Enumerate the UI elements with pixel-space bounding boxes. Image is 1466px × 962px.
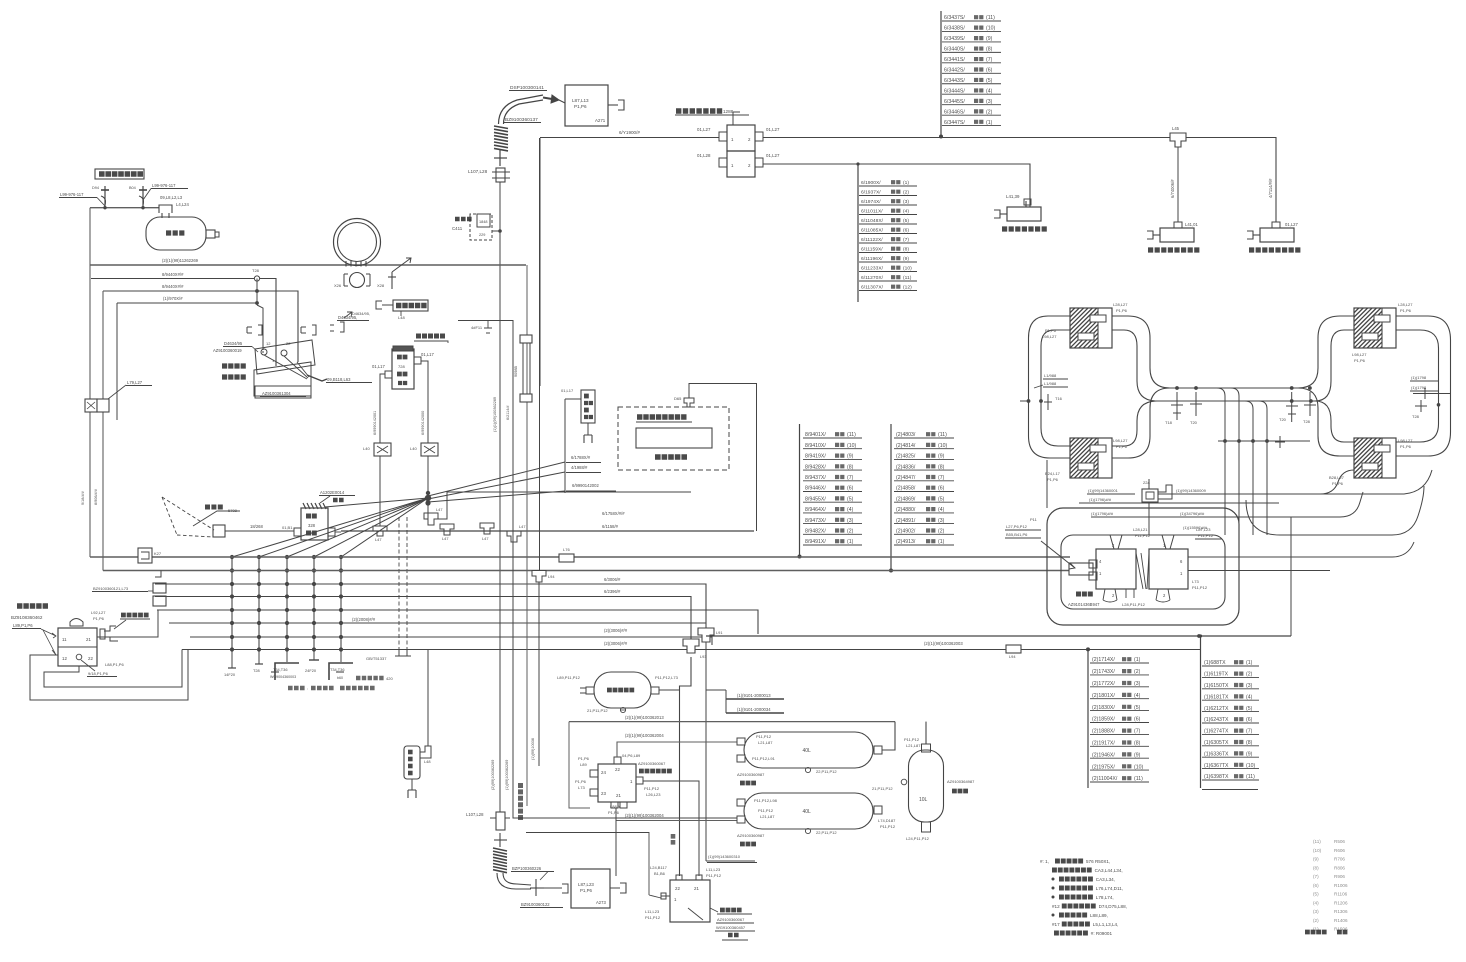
svg-text:8/9440X#/#: 8/9440X#/#	[162, 272, 184, 277]
svg-text:(2): (2)	[1313, 918, 1319, 923]
check valve 1	[104, 186, 106, 207]
relay valve 328 box	[301, 508, 328, 540]
compressor box	[392, 349, 414, 389]
svg-text:6/3446S/: 6/3446S/	[944, 109, 965, 115]
svg-text:L89,P11,P12: L89,P11,P12	[557, 675, 581, 680]
valve pin circles	[261, 349, 267, 355]
svg-text:P11,P12,L98: P11,P12,L98	[754, 798, 778, 803]
svg-text:L21,L87: L21,L87	[906, 743, 921, 748]
muffler box (dark)	[393, 300, 428, 311]
label relay-1288 (dark)	[676, 108, 722, 113]
svg-text:L88,#: L88,#	[610, 804, 621, 809]
svg-text:T20: T20	[1279, 417, 1287, 422]
svg-text:23: 23	[601, 791, 606, 796]
svg-text:(11): (11)	[938, 432, 947, 438]
svg-text:L99-976-117: L99-976-117	[60, 192, 84, 197]
hand brake valve body upper	[255, 340, 315, 374]
diagonal fan wires hub to grid	[232, 498, 428, 557]
extra row line table-T6	[1202, 789, 1258, 791]
relay valve right body	[1149, 549, 1188, 589]
bus y649.5	[182, 649, 1200, 651]
svg-text:(2): (2)	[847, 529, 854, 535]
svg-text:(5): (5)	[903, 218, 909, 224]
fan hub blob	[425, 495, 431, 501]
svg-text:(1): (1)	[1134, 657, 1141, 663]
wire y291	[103, 291, 298, 362]
svg-text:09,B118,L63: 09,B118,L63	[327, 377, 351, 382]
svg-text:(1): (1)	[847, 539, 854, 545]
svg-text:L76: L76	[563, 547, 570, 552]
junction dot table-T1 / main wire	[939, 135, 943, 139]
fitting L107/L28 bottom	[490, 817, 510, 819]
wire y832 x649	[526, 833, 649, 896]
svg-text:(2)4880/: (2)4880/	[896, 507, 916, 513]
svg-text:328: 328	[308, 523, 316, 528]
connector 1288 upper box	[727, 125, 755, 151]
svg-text:(10): (10)	[903, 266, 912, 272]
svg-text:(1)(15596)#/#: (1)(15596)#/#	[1183, 525, 1208, 530]
ticks T20 T28 loop2	[1291, 392, 1293, 422]
relay assembly inner round-rect	[1061, 535, 1225, 609]
fan wires hub to right labels	[428, 462, 565, 496]
diag leader into relay	[1041, 541, 1075, 568]
wire main top bus y137.5 left	[540, 137, 719, 139]
wire L91 top stub	[705, 642, 707, 645]
svg-text:(3): (3)	[938, 518, 945, 524]
svg-text:L73: L73	[1192, 579, 1199, 584]
svg-text:R1006: R1006	[1334, 883, 1348, 888]
svg-text:(12): (12)	[903, 285, 912, 291]
svg-text:P11,P12: P11,P12	[645, 915, 661, 920]
svg-text:L79,L27: L79,L27	[127, 380, 143, 385]
svg-text:(1)6119TX: (1)6119TX	[1204, 672, 1229, 678]
air hose coil	[334, 219, 381, 266]
bus y623	[169, 622, 706, 624]
horn connection box	[213, 525, 225, 537]
wire y517 right	[1091, 492, 1363, 517]
svg-text:R606: R606	[1334, 848, 1345, 853]
bus y557 (thick)	[90, 556, 1070, 558]
svg-text:6/11270X/: 6/11270X/	[861, 275, 884, 281]
svg-text:(2): (2)	[1134, 669, 1141, 675]
svg-text:(9): (9)	[1134, 752, 1141, 758]
svg-text:6/11085X/: 6/11085X/	[861, 228, 884, 234]
wire to A273	[544, 887, 562, 889]
tank3 left fitting	[901, 779, 907, 785]
svg-text:L4,L24: L4,L24	[176, 202, 189, 207]
wires y556/570 right of relay	[1093, 556, 1096, 558]
svg-text:(1): (1)	[986, 120, 993, 126]
svg-text:AZ9101436B947: AZ9101436B947	[1068, 602, 1100, 607]
bus y649 fitting L94b	[1006, 645, 1021, 653]
dryer feed box A273	[571, 869, 610, 908]
svg-text:b60: b60	[337, 676, 343, 680]
svg-text:(1): (1)	[938, 539, 945, 545]
svg-text:(1)(99)14360009: (1)(99)14360009	[1176, 488, 1207, 493]
svg-text:6/3438S/: 6/3438S/	[944, 26, 965, 32]
svg-text:(7): (7)	[903, 237, 909, 243]
tee L94 on bus570	[532, 571, 546, 583]
svg-text:(4): (4)	[1134, 693, 1141, 699]
svg-text:D4634/95: D4634/95	[224, 341, 243, 346]
svg-text:P11,P12: P11,P12	[1198, 533, 1214, 538]
wires relay region horiz	[1079, 502, 1279, 504]
svg-text:18/268: 18/268	[250, 524, 263, 529]
svg-text:8/9428X/: 8/9428X/	[805, 464, 826, 470]
svg-text:22: 22	[675, 886, 680, 891]
svg-text:L45: L45	[1172, 126, 1180, 131]
svg-text:5708: 5708	[228, 508, 238, 513]
svg-text:4#F11: 4#F11	[471, 325, 483, 330]
wire table-spine T4	[890, 424, 892, 571]
wire y494 right	[1172, 462, 1436, 494]
svg-text:(10): (10)	[1134, 764, 1143, 770]
svg-text:(8): (8)	[1313, 865, 1319, 870]
svg-text:40L: 40L	[803, 809, 812, 815]
svg-text:(1)6274TX: (1)6274TX	[1204, 729, 1229, 735]
svg-text:(2)4836/: (2)4836/	[896, 464, 916, 470]
svg-text:(2)1830X/: (2)1830X/	[1092, 705, 1115, 711]
svg-text:(1)(99)14360001: (1)(99)14360001	[1088, 488, 1119, 493]
svg-text:728: 728	[398, 364, 405, 369]
wire left x117 down	[116, 303, 118, 420]
svg-text:B55,B41,P6: B55,B41,P6	[1006, 532, 1028, 537]
wire x565 from alarm box	[564, 399, 566, 493]
svg-text:L11,L23: L11,L23	[645, 909, 660, 914]
svg-text:(1)(99)143600310: (1)(99)143600310	[708, 854, 741, 859]
wire D65 up-right to x756	[689, 384, 757, 532]
main bus y531	[341, 530, 754, 532]
alarm box fork	[587, 423, 589, 435]
air tank 1 (40L)	[744, 732, 873, 768]
wire L91 down x706	[705, 642, 707, 861]
4cv pins	[590, 770, 598, 777]
wire x527 gray	[526, 265, 528, 806]
svg-text:T18: T18	[1165, 420, 1173, 425]
svg-text:T16: T16	[1055, 396, 1063, 401]
svg-text:AZ9100364987: AZ9100364987	[947, 779, 975, 784]
wire main top bus y137.5 right	[763, 137, 1170, 139]
svg-text:L107,L28: L107,L28	[468, 169, 488, 174]
relay bottom stubs	[1103, 589, 1117, 602]
svg-text:(10): (10)	[986, 26, 995, 32]
svg-text:L73: L73	[578, 785, 585, 790]
svg-text:L87,L23: L87,L23	[578, 882, 594, 887]
svg-text:(1)6212TX: (1)6212TX	[1204, 706, 1229, 712]
svg-text:(4): (4)	[938, 507, 945, 513]
dashed pair verticals	[398, 517, 400, 650]
compressor right pin	[414, 357, 421, 364]
svg-text:(2)4803/: (2)4803/	[896, 432, 916, 438]
svg-text:(11): (11)	[847, 432, 856, 438]
wire tee-a jog	[434, 492, 691, 519]
wire relay328 to bus	[335, 531, 341, 533]
svg-text:R1106: R1106	[1334, 892, 1348, 897]
wire table-spine T5	[1087, 649, 1089, 788]
svg-text:(2)4869/: (2)4869/	[896, 496, 916, 502]
svg-text:6/9990142002: 6/9990142002	[572, 483, 599, 488]
inline fitting L79/L27 b	[97, 399, 109, 412]
air tank 3 (10L vertical)	[909, 750, 944, 822]
svg-text:(10): (10)	[1313, 848, 1322, 853]
svg-text:6/3443S/: 6/3443S/	[944, 78, 965, 84]
dryer label box	[720, 908, 742, 913]
svg-text:L41,01: L41,01	[1185, 222, 1198, 227]
svg-text:01,L27: 01,L27	[766, 127, 780, 132]
wire x712 from L91-x706	[706, 689, 726, 691]
junction dot table-T3 / bus	[798, 555, 802, 559]
svg-text:6/1158/#: 6/1158/#	[602, 524, 619, 529]
svg-text:(2)(2008)#/#: (2)(2008)#/#	[352, 617, 376, 622]
svg-text:(1)(1)(99)100362269: (1)(1)(99)100362269	[493, 397, 497, 432]
svg-text:576 R50X1,: 576 R50X1,	[1086, 859, 1110, 864]
mid verticals to relay	[1217, 388, 1225, 535]
svg-text:(1)6181TX: (1)6181TX	[1204, 694, 1229, 700]
wire left x103 down	[102, 291, 104, 571]
title box top-left (dark)	[95, 169, 144, 179]
svg-text:T28: T28	[252, 268, 260, 273]
inline fitting L76	[559, 554, 574, 562]
wire tank bottom y265	[90, 264, 526, 266]
svg-text:P11,P12: P11,P12	[1135, 533, 1151, 538]
svg-text:#17: #17	[1052, 922, 1060, 927]
svg-text:(2): (2)	[938, 529, 945, 535]
svg-text:L88,P1,P6: L88,P1,P6	[105, 662, 124, 667]
wire compressor right down	[421, 361, 428, 443]
grid terminator 5	[340, 652, 342, 662]
svg-text:(3): (3)	[1246, 683, 1253, 689]
svg-text:L107,L28: L107,L28	[466, 812, 484, 817]
wire horn to relay valve	[225, 530, 294, 532]
svg-text:(9): (9)	[938, 454, 945, 460]
svg-text:L89: L89	[580, 762, 587, 767]
svg-text:D4634/95,: D4634/95,	[352, 311, 370, 316]
grid placement note	[288, 686, 305, 691]
tank2 fittings	[737, 799, 745, 806]
svg-text:14F20: 14F20	[224, 672, 236, 677]
svg-text:(4): (4)	[986, 88, 993, 94]
lubricator A271 box	[565, 85, 608, 126]
svg-text:X28: X28	[377, 283, 385, 288]
fittings near hand brake	[247, 327, 252, 333]
svg-text:L91: L91	[716, 630, 723, 635]
svg-text:(2)1946X/: (2)1946X/	[1092, 752, 1115, 758]
wire tank1 right jog	[882, 722, 895, 750]
svg-text:01,L17: 01,L17	[561, 388, 574, 393]
fitting cross3	[535, 879, 537, 896]
svg-text:6/1900X/: 6/1900X/	[861, 180, 881, 186]
svg-text:(7): (7)	[986, 57, 993, 63]
svg-text:AZ9100361304: AZ9100361304	[262, 391, 291, 396]
svg-text:(8): (8)	[847, 464, 854, 470]
connector bracket right of A271	[608, 104, 618, 106]
svg-text:P11,P12: P11,P12	[904, 737, 920, 742]
bus y584	[155, 584, 706, 628]
svg-text:L28,P11,P12: L28,P11,P12	[1122, 602, 1146, 607]
svg-text:(7): (7)	[1134, 729, 1141, 735]
brake valve title	[17, 603, 48, 608]
inline hose 9098B	[520, 335, 532, 343]
svg-text:L92,L27: L92,L27	[91, 610, 106, 615]
loop1 tubes	[1029, 316, 1071, 458]
junction table-T2 spine on wire y164	[856, 162, 859, 165]
air dryer box	[670, 880, 710, 922]
svg-text:(4): (4)	[903, 209, 909, 215]
svg-text:6/Y1900/#: 6/Y1900/#	[619, 130, 640, 135]
svg-text:21: 21	[86, 637, 91, 642]
svg-text:L94: L94	[1009, 654, 1016, 659]
svg-text:09,L8,L2,L3: 09,L8,L2,L3	[160, 195, 183, 200]
svg-text:4/1988/#: 4/1988/#	[571, 465, 588, 470]
oil filler pipe	[90, 207, 159, 209]
svg-text:01,B1: 01,B1	[282, 525, 293, 530]
svg-text:(2)4902/: (2)4902/	[896, 529, 916, 535]
grid terminator 4	[313, 652, 315, 660]
svg-text:AZ9100360067: AZ9100360067	[638, 761, 666, 766]
air cleaner throttle dashed box	[618, 407, 729, 470]
svg-text:(5): (5)	[1134, 705, 1141, 711]
relay valve left body	[1096, 549, 1136, 589]
svg-text:L28,L27: L28,L27	[1113, 302, 1128, 307]
svg-text:6/3006/#: 6/3006/#	[604, 577, 621, 582]
svg-text:(2)4858/: (2)4858/	[896, 486, 916, 492]
svg-text:BZ9100360122: BZ9100360122	[521, 902, 550, 907]
svg-text:(6): (6)	[847, 486, 854, 492]
svg-text:L47: L47	[482, 536, 489, 541]
svg-text:B04: B04	[129, 186, 136, 190]
svg-text:AZ9100360987: AZ9100360987	[737, 772, 765, 777]
manifold grid junction dots	[230, 555, 234, 559]
svg-text:21,P11,P12: 21,P11,P12	[587, 708, 608, 713]
svg-text:6/3444S/: 6/3444S/	[944, 88, 965, 94]
svg-text:(1): (1)	[1246, 660, 1253, 666]
oil tank right fitting	[206, 230, 215, 238]
wire x297 from y291	[297, 344, 299, 362]
svg-text:(8): (8)	[986, 47, 993, 53]
wire x380 filter to bus	[379, 456, 381, 526]
arrow into A271	[543, 98, 558, 101]
mid cross line y441	[1218, 440, 1310, 442]
wire x428 filter to hub	[427, 456, 429, 519]
svg-text:6/11011X/: 6/11011X/	[861, 209, 883, 215]
svg-text:CA3,L44,L34,: CA3,L44,L34,	[1095, 868, 1123, 873]
svg-text:22,P11,P12: 22,P11,P12	[816, 769, 837, 774]
fitting stack L73	[155, 571, 161, 578]
svg-text:(2): (2)	[986, 109, 993, 115]
svg-text:P1,P6: P1,P6	[578, 756, 590, 761]
svg-text:L47: L47	[442, 536, 449, 541]
svg-text:P1,P6: P1,P6	[1354, 358, 1366, 363]
svg-text:(1)(1796)#/#: (1)(1796)#/#	[1091, 511, 1114, 516]
svg-text:21: 21	[616, 793, 621, 798]
svg-text:R1406: R1406	[1334, 918, 1348, 923]
svg-text:(5): (5)	[938, 496, 945, 502]
manifold grid verticals	[231, 557, 233, 652]
wire table-spine T3	[799, 424, 801, 556]
wire 4cv pin1 right	[643, 781, 699, 876]
svg-text:P11,P12: P11,P12	[706, 873, 722, 878]
svg-text:11: 11	[62, 637, 67, 642]
svg-text:(2)4847/: (2)4847/	[896, 475, 916, 481]
svg-text:AZ9100360019: AZ9100360019	[213, 348, 242, 353]
svg-text:(7): (7)	[1246, 729, 1253, 735]
air tank 2 (40L)	[744, 793, 873, 829]
svg-text:L99-976-117: L99-976-117	[152, 183, 176, 188]
svg-text:L24,B117: L24,B117	[650, 865, 668, 870]
svg-text:24F20: 24F20	[305, 668, 317, 673]
wire L45 down x1178	[1177, 147, 1179, 222]
relay top junction fitting	[1142, 489, 1158, 502]
svg-text:(1)(9101-2000034: (1)(9101-2000034	[737, 707, 771, 712]
svg-text:8/9473X/: 8/9473X/	[805, 518, 826, 524]
svg-text:(5): (5)	[1313, 892, 1319, 897]
svg-text:R906: R906	[1334, 874, 1345, 879]
elbow fitting tank top	[159, 205, 172, 218]
svg-text:8/9419X/: 8/9419X/	[805, 454, 826, 460]
loop2 left junction dots	[1290, 386, 1294, 390]
label workbench1 (blobs)	[1002, 226, 1047, 231]
svg-text:(9): (9)	[1313, 857, 1319, 862]
svg-text:6/1788X/#: 6/1788X/#	[571, 455, 591, 460]
wire elbow up x428	[427, 650, 429, 747]
svg-text:(2)1975X/: (2)1975X/	[1092, 764, 1115, 770]
svg-text:L47: L47	[436, 507, 443, 512]
svg-text:6/3440S/: 6/3440S/	[944, 47, 965, 53]
wire y820 to tank2	[616, 820, 737, 822]
svg-text:8/9455X/: 8/9455X/	[805, 496, 826, 502]
svg-text:01,L27: 01,L27	[1285, 222, 1298, 227]
svg-text:R1306: R1306	[1334, 909, 1348, 914]
svg-text:L41,39: L41,39	[1006, 194, 1020, 199]
svg-text:L47: L47	[519, 524, 526, 529]
compressor leader + label	[416, 334, 445, 339]
wire spare tank right	[659, 689, 680, 691]
wire table-spine T1	[940, 11, 942, 137]
svg-text:R806: R806	[1334, 865, 1345, 870]
inline filter L40 right	[421, 443, 438, 456]
svg-text:6/3447S/: 6/3447S/	[944, 120, 965, 126]
label workbench2 (blobs)	[1148, 247, 1199, 252]
svg-text:6/11048X/: 6/11048X/	[861, 218, 884, 224]
wire main bus to x1276 corner	[1186, 138, 1276, 223]
svg-text:22a: 22a	[1143, 480, 1150, 485]
svg-text:(1)(34796)#/#: (1)(34796)#/#	[1180, 511, 1205, 516]
brake valve loop wires	[30, 650, 188, 701]
svg-text:(6): (6)	[1246, 717, 1253, 723]
svg-text:B1,B6: B1,B6	[654, 871, 666, 876]
svg-text:(2)1714X/: (2)1714X/	[1092, 657, 1115, 663]
brake light switch (dark)	[121, 613, 149, 618]
svg-text:6/9990142001: 6/9990142001	[373, 411, 377, 435]
svg-text:WG9004360003: WG9004360003	[270, 675, 296, 679]
svg-text:1288: 1288	[723, 109, 734, 114]
svg-text:AZ9100360067: AZ9100360067	[717, 917, 745, 922]
svg-text:(2)4891/: (2)4891/	[896, 518, 916, 524]
wire x500 vertical main	[499, 182, 501, 814]
horn label	[205, 505, 223, 510]
svg-text:L98,L27: L98,L27	[1352, 352, 1367, 357]
oil tank (capsule)	[146, 217, 206, 250]
svg-text:P1,P6: P1,P6	[580, 888, 593, 893]
loop2 right cross ticks	[1413, 393, 1451, 395]
relay assembly outer round-rect	[1047, 508, 1239, 625]
svg-text:L40: L40	[410, 446, 417, 451]
wire table-spine T6	[1200, 636, 1202, 788]
brake chamber loop2 top	[1354, 308, 1396, 348]
svg-text:GB/T51337: GB/T51337	[366, 656, 387, 661]
svg-text:10L: 10L	[919, 797, 928, 803]
svg-text:P1,P6: P1,P6	[575, 779, 587, 784]
